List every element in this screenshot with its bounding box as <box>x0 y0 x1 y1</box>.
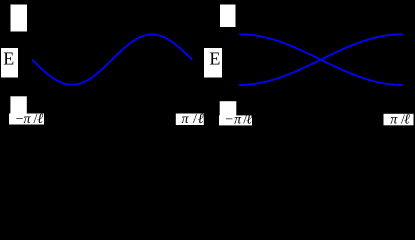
left panel: top-left white label box <box>11 5 28 32</box>
svg-text:π: π <box>390 112 398 127</box>
svg-text:ℓ: ℓ <box>37 112 43 127</box>
svg-text:π: π <box>234 113 242 128</box>
right panel: E axis label box <box>204 48 222 78</box>
svg-text:E: E <box>209 49 220 69</box>
svg-text:E: E <box>3 49 14 69</box>
right panel: pi/l tick label <box>384 114 414 126</box>
svg-text:ℓ: ℓ <box>404 112 410 127</box>
svg-text:ℓ: ℓ <box>246 113 252 128</box>
right panel: ascending band curve <box>239 34 403 85</box>
right panel: bottom-left white box <box>220 101 237 123</box>
svg-text:−: − <box>225 113 233 128</box>
right panel: top-left white label box <box>220 5 236 28</box>
svg-text:π: π <box>182 112 190 127</box>
svg-text:/: / <box>193 112 197 127</box>
left panel: E axis label box <box>1 48 18 78</box>
right panel: -pi/l tick label <box>219 115 252 125</box>
left panel: pi/l tick label <box>176 114 204 126</box>
right panel: descending band curve <box>239 34 403 85</box>
left panel: band curve E(k) <box>32 34 192 84</box>
left panel: -pi/l tick label <box>9 114 44 125</box>
svg-text:π: π <box>24 112 32 127</box>
svg-text:ℓ: ℓ <box>198 112 204 127</box>
left panel: bottom-left white box <box>10 96 26 118</box>
